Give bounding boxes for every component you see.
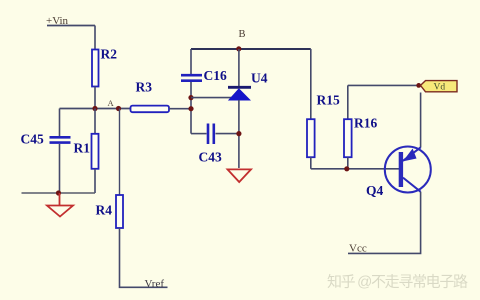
label R4 — [96, 203, 113, 218]
wire +Vin stub — [47, 25, 95, 27]
svg-text:C43: C43 — [199, 150, 222, 165]
svg-text:C45: C45 — [21, 132, 44, 147]
label C45 — [21, 132, 44, 147]
wire top node B — [191, 48, 311, 50]
svg-text:Vd: Vd — [434, 83, 446, 93]
watermark — [327, 274, 468, 291]
node A — [108, 98, 122, 111]
wire +Vin down to R2 — [94, 26, 96, 51]
wire R16 to Vd — [348, 84, 418, 86]
junction C16/U4 — [188, 95, 193, 100]
svg-text:A: A — [108, 98, 115, 108]
resistor R4 — [116, 195, 123, 228]
label C16 — [204, 68, 227, 83]
junction R1-R2 — [92, 106, 97, 111]
label C43 — [199, 150, 222, 165]
diode U4 — [228, 87, 251, 100]
capacitor C16 — [181, 75, 202, 81]
label R1 — [74, 141, 91, 156]
svg-text:+Vin: +Vin — [46, 15, 69, 27]
capacitor C43 — [191, 124, 239, 145]
wire C45 branch down — [59, 109, 61, 137]
svg-text:R1: R1 — [74, 141, 91, 156]
wire bottom left — [22, 192, 96, 194]
wire bottom to base — [311, 168, 399, 170]
junction R3 node — [188, 106, 193, 111]
resistor R1 — [92, 109, 99, 194]
resistor R3 — [131, 106, 170, 113]
transistor Q4 — [385, 147, 431, 193]
wire collector to Vcc — [348, 192, 421, 254]
label R15 — [317, 93, 340, 108]
label R3 — [136, 80, 153, 95]
power tag Vd — [421, 81, 458, 93]
label R16 — [354, 116, 377, 131]
wire R4 to Vref — [120, 228, 168, 287]
svg-text:知乎 @不走寻常电子路: 知乎 @不走寻常电子路 — [327, 274, 468, 291]
svg-text:Q4: Q4 — [366, 183, 384, 198]
junction ground — [56, 190, 61, 195]
label U4 — [251, 71, 268, 86]
net label +Vin — [46, 15, 69, 27]
svg-text:R3: R3 — [136, 80, 153, 95]
svg-text:Vcc: Vcc — [349, 243, 367, 255]
wire R3 right lead — [169, 108, 191, 110]
svg-text:R16: R16 — [354, 116, 377, 131]
capacitor C45 — [50, 137, 71, 142]
wire node A horizontal — [60, 108, 132, 110]
svg-text:R2: R2 — [101, 47, 118, 62]
wire U4 to ground — [238, 100, 240, 168]
junction R16 base — [344, 166, 349, 171]
resistor R2 — [92, 50, 99, 87]
wire B down to U4 — [238, 49, 240, 86]
wire R2 to node A — [94, 87, 96, 109]
label Q4 — [366, 183, 384, 198]
resistor R16 — [344, 85, 352, 168]
resistor R15 — [307, 119, 315, 169]
label R2 — [101, 47, 118, 62]
svg-text:R15: R15 — [317, 93, 340, 108]
svg-text:U4: U4 — [251, 71, 268, 86]
svg-text:B: B — [239, 29, 246, 40]
junction C43 — [236, 131, 241, 136]
ground (left) — [47, 193, 73, 217]
ground (middle) — [228, 169, 252, 182]
svg-text:C16: C16 — [204, 68, 227, 83]
wire C16 branch — [190, 49, 192, 74]
wire node A to R4 — [119, 109, 121, 196]
wire C45 to bottom — [59, 144, 61, 193]
wire Vd to emitter — [420, 93, 422, 148]
wire B to R15 — [310, 49, 312, 119]
wire C16 down to C43 — [190, 82, 192, 134]
svg-text:Vref: Vref — [145, 278, 165, 290]
net label Vref — [145, 278, 165, 290]
net label Vcc — [349, 243, 367, 255]
junction Vd — [416, 83, 421, 88]
node B — [236, 29, 245, 51]
wire to U4 anode — [191, 97, 233, 99]
svg-text:R4: R4 — [96, 203, 113, 218]
